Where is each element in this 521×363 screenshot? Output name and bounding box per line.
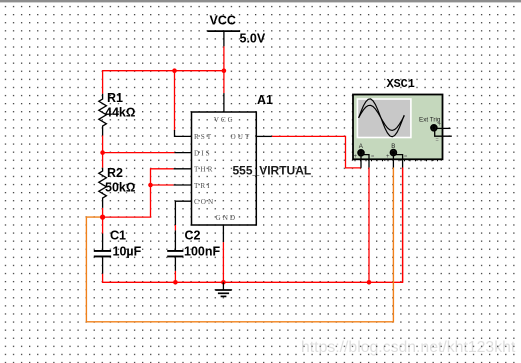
- svg-text:=: =: [404, 154, 407, 160]
- svg-text:VCC: VCC: [210, 14, 236, 28]
- pin RST stub: [175, 130, 192, 136]
- junction RST riser on VCC rail: [172, 68, 177, 73]
- svg-text:=: =: [436, 138, 439, 144]
- timer A1 555_VIRTUAL body: [192, 112, 257, 225]
- junction scope A minus on ground bus: [367, 280, 372, 285]
- svg-text:+: +: [386, 154, 390, 160]
- pin CON stub: [175, 201, 191, 225]
- svg-text:555_VIRTUAL: 555_VIRTUAL: [233, 164, 312, 178]
- wire chip GND pin to ground bus: [222, 242, 224, 282]
- scope terminal Ext Trig: [431, 125, 437, 131]
- svg-text:R2: R2: [107, 166, 123, 180]
- screen waveform trace 1: [359, 99, 405, 137]
- wire C2 bottom to ground bus: [174, 271, 176, 283]
- oscilloscope XSC1 body: [353, 95, 443, 160]
- power symbol VCC: [207, 31, 240, 46]
- svg-text:44kΩ: 44kΩ: [105, 106, 135, 120]
- wire C1 bottom and ground bus to scope B minus: [103, 168, 403, 283]
- svg-text:+: +: [438, 122, 442, 128]
- scope Ext Trig minus stub: [435, 129, 452, 136]
- capacitor C2: [167, 230, 183, 270]
- oscilloscope bottom edge ticks: [355, 159, 438, 161]
- svg-text:B: B: [391, 143, 395, 150]
- svg-text:OUT: OUT: [231, 133, 252, 141]
- svg-text:R1: R1: [107, 91, 123, 105]
- junction THR-TRI link at TRI row: [148, 183, 153, 188]
- scope terminal A: [358, 150, 364, 156]
- scope terminal A stub: [360, 153, 362, 168]
- wire scope B minus drop: [402, 168, 404, 283]
- svg-text:GND: GND: [216, 214, 238, 222]
- wire TRI stub link: [151, 184, 174, 186]
- junction R2/C1/orange node: [100, 215, 105, 220]
- wire VCC rail from R1 top to VCC pin column: [103, 71, 224, 94]
- junction chip GND on ground bus: [221, 280, 226, 285]
- pin OUT stub: [256, 135, 272, 137]
- wire RST riser from VCC rail: [174, 71, 176, 131]
- svg-text:VCC: VCC: [214, 116, 235, 124]
- junction C2 bottom on ground bus: [173, 280, 178, 285]
- ground: [215, 282, 231, 296]
- svg-text:C2: C2: [185, 229, 201, 243]
- pin TRI stub: [174, 184, 192, 186]
- wire R2 bottom to node: [102, 208, 104, 234]
- pin DIS stub: [175, 152, 192, 154]
- junction VCC rail at chip column: [222, 68, 227, 73]
- scope Ext Trig plus stub: [435, 127, 451, 129]
- wire scope A minus drop to ground bus: [368, 168, 370, 283]
- scope terminal A minus stub: [362, 155, 369, 168]
- svg-text:CON: CON: [194, 198, 215, 206]
- svg-text:C1: C1: [110, 229, 126, 243]
- wire OUT to scope channel A: [272, 136, 361, 168]
- wire DIS branch: [103, 152, 175, 154]
- pin VCC stub: [223, 93, 225, 112]
- svg-text:A1: A1: [257, 93, 273, 107]
- oscilloscope screen: [357, 98, 412, 138]
- resistor R2: [99, 168, 107, 208]
- wire CON elbow to C2 top: [174, 225, 176, 230]
- svg-text:=: =: [371, 154, 374, 160]
- svg-text:10µF: 10µF: [113, 245, 142, 259]
- svg-text:100nF: 100nF: [184, 245, 220, 259]
- screen waveform trace 2: [359, 105, 405, 130]
- scope terminal B: [391, 150, 397, 156]
- svg-text:THR: THR: [194, 166, 214, 174]
- junction DIS branch at R1/R2 node: [100, 150, 105, 155]
- svg-text:XSC1: XSC1: [387, 77, 415, 91]
- svg-text:DIS: DIS: [194, 149, 212, 157]
- pin THR stub: [174, 168, 192, 170]
- wire orange scope channel B probe to THR/TRI node: [86, 168, 393, 322]
- svg-text:5.0V: 5.0V: [240, 32, 266, 46]
- scope terminal B stub: [392, 153, 394, 168]
- svg-text:TRI: TRI: [194, 182, 212, 190]
- resistor R1: [99, 94, 107, 136]
- wire R1 bottom to R2 top: [102, 136, 104, 168]
- wire THR-TRI link down to R2/C1 node: [103, 169, 174, 217]
- capacitor C1: [94, 234, 111, 274]
- wire VCC symbol to chip VCC pin: [223, 46, 225, 93]
- svg-text:+: +: [354, 154, 358, 160]
- scope terminal B minus stub: [395, 155, 403, 168]
- svg-text:RST: RST: [194, 133, 213, 141]
- svg-text:50kΩ: 50kΩ: [105, 181, 135, 195]
- pin GND stub: [222, 225, 224, 242]
